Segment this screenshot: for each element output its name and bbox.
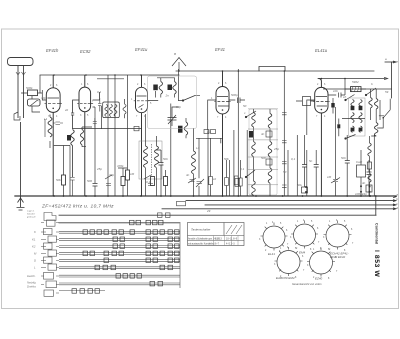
- wire stem to resistor: [21, 87, 43, 112]
- input section components: [21, 58, 200, 197]
- vertical x220.8: [220, 138, 222, 143]
- svg-text:L1: L1: [44, 117, 48, 121]
- trimmer 1M: [331, 178, 340, 184]
- svg-text:K: K: [34, 230, 36, 234]
- svg-text:ZF=452/472 kHz u. 10,7 MHz: ZF=452/472 kHz u. 10,7 MHz: [41, 204, 114, 210]
- cap box on bus2: [177, 201, 186, 205]
- switch S2: [178, 95, 200, 100]
- svg-text:500k: 500k: [26, 86, 33, 90]
- trimmer cap box: [28, 99, 41, 106]
- boxes on bus5: [158, 213, 163, 218]
- core F blobs: [351, 106, 355, 110]
- IF coil A: [159, 82, 162, 95]
- svg-text:EF41: EF41: [215, 47, 225, 52]
- wire x288: [287, 150, 289, 196]
- coil feeds: [146, 114, 157, 196]
- grid wire tube1: [42, 90, 46, 100]
- coupling coil right: [123, 104, 126, 114]
- caps on x284: [282, 113, 287, 188]
- svg-text:1k: 1k: [213, 177, 217, 181]
- svg-text:4n: 4n: [186, 173, 190, 177]
- speaker switch: [383, 99, 390, 118]
- rail drop to resistor: [39, 75, 41, 87]
- top right stub: [385, 61, 394, 63]
- pushbutton switch matrix: [41, 213, 180, 297]
- socket EL41: [261, 223, 288, 251]
- trimmer at x108 bottom: [105, 175, 112, 186]
- svg-text:14p: 14p: [362, 192, 367, 196]
- drop to switch x178.5: [172, 69, 179, 112]
- right edge arrows: [393, 61, 396, 210]
- top rail mid: [176, 70, 374, 72]
- socket EZ40: [307, 248, 335, 277]
- trimmer mid: [144, 175, 153, 186]
- 1JBu cap blob: [337, 124, 340, 128]
- coil L1 under tube1: [48, 117, 52, 137]
- svg-text:500p: 500p: [231, 93, 238, 97]
- 10n cap blob: [331, 103, 334, 108]
- bus line 3: [205, 204, 395, 206]
- cap at x95: [93, 107, 98, 196]
- cap 500p right of tube4: [229, 98, 245, 104]
- wire x108: [107, 75, 109, 196]
- osc coil: [71, 130, 74, 146]
- svg-text:500: 500: [87, 179, 92, 183]
- tube2 aux wiring: [53, 92, 100, 196]
- svg-text:30p: 30p: [109, 173, 114, 177]
- socket ECH42: [324, 221, 352, 250]
- matrix component boxes: [72, 220, 179, 293]
- small cap near tube2: [71, 113, 74, 129]
- svg-text:50p: 50p: [176, 105, 181, 109]
- svg-text:0,1: 0,1: [207, 130, 212, 134]
- resistor on x237: [235, 179, 240, 187]
- svg-text:D: D: [34, 259, 36, 263]
- switch slants left of coils: [246, 170, 255, 177]
- IFT2 coil column A: [252, 113, 256, 127]
- main ground bus: [15, 195, 396, 197]
- coil F: [351, 100, 354, 133]
- IF coil core B (black): [168, 85, 173, 91]
- IF transformer 1 box: [139, 141, 162, 179]
- switch bottom: [346, 135, 356, 139]
- output transformer coils x376: [374, 99, 378, 110]
- switch slant top right: [346, 88, 377, 100]
- resistor 5962 hatched: [351, 87, 362, 92]
- svg-text:Drehko: Drehko: [27, 285, 36, 289]
- svg-text:4n: 4n: [261, 132, 265, 136]
- svg-text:EF42 EF42: EF42 EF42: [330, 255, 346, 259]
- detector mid line: [342, 118, 365, 120]
- matrix row 1: [59, 222, 180, 224]
- tiny value labels: [26, 52, 389, 213]
- wire x115: [114, 75, 116, 196]
- box x240.4: [239, 178, 243, 186]
- svg-text:Heizkr.: Heizkr.: [27, 274, 36, 278]
- svg-text:59: 59: [385, 90, 389, 94]
- resistor x210.5: [209, 177, 213, 185]
- tube socket circles: [261, 221, 352, 277]
- bus line 2: [186, 200, 395, 202]
- Tastenschalter table: [188, 223, 245, 246]
- small boxes between coils: [266, 131, 272, 137]
- tube pin stubs: [45, 101, 330, 104]
- switch slant: [246, 111, 256, 117]
- svg-text:50n: 50n: [341, 156, 346, 160]
- wire x297: [296, 135, 298, 196]
- svg-text:10n: 10n: [333, 89, 338, 93]
- line y128.6: [73, 128, 142, 130]
- svg-text:K2: K2: [32, 245, 36, 249]
- socket EM4: [291, 221, 318, 249]
- IF coil core A (black): [153, 85, 158, 91]
- tube V4 EF41: [216, 71, 229, 196]
- ground: [17, 196, 25, 210]
- svg-text:25p: 25p: [96, 167, 102, 171]
- right section around tube5: [296, 79, 390, 197]
- svg-text:EL41u: EL41u: [315, 48, 328, 53]
- bus line 5: [59, 214, 376, 216]
- IFT2 enclosure box: [249, 109, 277, 195]
- trimmer right: [188, 178, 196, 183]
- svg-text:70p: 70p: [41, 96, 46, 100]
- wire x229.5: [229, 160, 231, 196]
- bandfilter box: [103, 102, 120, 118]
- coil core C: [178, 126, 183, 133]
- core G blobs: [359, 106, 363, 110]
- svg-text:L4: L4: [196, 146, 200, 150]
- trimmer x199: [196, 179, 204, 187]
- tube V3 EF41u: [136, 75, 148, 196]
- cap at 347: [345, 135, 350, 196]
- svg-text:EABC80 EM4: EABC80 EM4: [276, 276, 295, 280]
- box on line: [134, 126, 139, 130]
- svg-text:10–11 8–9: 10–11 8–9: [226, 237, 238, 240]
- resistor x122: [121, 177, 125, 186]
- cluster caps right: [367, 160, 372, 197]
- cap 25u: [93, 118, 97, 128]
- cap at 316: [314, 150, 319, 196]
- button ladder: [41, 213, 59, 297]
- variable cap C14: [168, 112, 177, 126]
- svg-text:5962: 5962: [352, 80, 359, 84]
- choke coil x369.5: [368, 143, 371, 156]
- svg-text:0,1: 0,1: [240, 167, 245, 171]
- antenna: [8, 58, 34, 197]
- svg-text:B: B: [174, 52, 176, 56]
- top rail right: [318, 78, 385, 80]
- svg-text:50: 50: [243, 104, 247, 108]
- CaQ box: [357, 165, 366, 177]
- svg-text:4–5 2–3: 4–5 2–3: [226, 242, 235, 245]
- svg-text:gedruckt: gedruckt: [27, 216, 36, 219]
- output transformer primary x370.5: [369, 98, 372, 109]
- svg-text:K1: K1: [32, 238, 36, 242]
- resistor x226.5: [225, 178, 229, 186]
- svg-text:Continental: Continental: [374, 223, 378, 244]
- cap x160: [156, 150, 164, 196]
- IF coil B: [173, 82, 176, 95]
- svg-text:2n: 2n: [165, 94, 170, 98]
- matrix right edge: [179, 223, 181, 288]
- tube V2 EC92: [79, 75, 93, 196]
- top rail left: [40, 74, 179, 76]
- svg-text:EZ40: EZ40: [315, 277, 323, 281]
- tube pin numbers: [48, 82, 326, 119]
- grid wire tube4: [208, 100, 216, 196]
- socket EABC80: [275, 247, 303, 276]
- coil C: [184, 122, 187, 135]
- grid wire tube5: [307, 100, 315, 196]
- svg-text:0,1: 0,1: [146, 180, 151, 184]
- wire x247: [246, 130, 248, 196]
- svg-text:29: 29: [206, 209, 211, 213]
- resistor x236.3: [235, 176, 239, 185]
- mid-right section (around tube4): [196, 69, 297, 196]
- boxes above: [204, 130, 209, 134]
- svg-text:Tastenschalter: Tastenschalter: [191, 228, 211, 232]
- svg-text:1M: 1M: [327, 175, 332, 179]
- wire x233.9: [233, 130, 235, 196]
- svg-text:50u: 50u: [297, 183, 302, 187]
- top link: [97, 79, 124, 129]
- svg-text:EL41: EL41: [268, 252, 275, 256]
- resistor x152: [151, 177, 155, 186]
- svg-text:470k: 470k: [117, 164, 124, 168]
- AVC line y138: [196, 137, 223, 139]
- matrix row lines (double): [59, 231, 180, 290]
- svg-text:2k: 2k: [64, 108, 69, 112]
- vertical x199: [198, 138, 200, 196]
- tube V5 EL41: [315, 79, 328, 197]
- svg-text:50: 50: [283, 170, 287, 174]
- FM tuner enclosure box: [148, 76, 197, 129]
- svg-text:CaQ: CaQ: [356, 160, 363, 164]
- svg-text:Lage d.: Lage d.: [27, 211, 35, 213]
- svg-text:5n: 5n: [309, 159, 313, 163]
- coil x193: [192, 151, 196, 174]
- coil G: [359, 100, 362, 133]
- resistor x369.5: [367, 162, 371, 169]
- svg-text:0,1: 0,1: [97, 90, 102, 94]
- resistor 500k: [28, 90, 38, 96]
- coil core D (black): [249, 131, 253, 138]
- svg-text:ǀ 853 W: ǀ 853 W: [373, 250, 380, 277]
- horizontals in IFT2: [248, 109, 278, 185]
- svg-text:50k: 50k: [56, 178, 61, 182]
- socket labels: [268, 251, 349, 287]
- svg-text:Schalter: Schalter: [27, 213, 35, 216]
- wire x284 long: [283, 71, 285, 196]
- tube V1 EF41: [46, 75, 60, 196]
- svg-text:1M: 1M: [130, 172, 135, 176]
- ratio detector transformer box: [349, 98, 366, 136]
- svg-text:50k: 50k: [224, 157, 229, 161]
- bus line 4: [162, 208, 395, 210]
- svg-text:6–7: 6–7: [215, 242, 220, 245]
- coil2 x369.5: [368, 174, 371, 183]
- svg-text:50n: 50n: [261, 156, 266, 160]
- osc coil core (black): [67, 135, 71, 141]
- riser at 375.5: [375, 196, 377, 215]
- coupling box left of tube5: [303, 97, 311, 106]
- cap left of bandfilter: [98, 98, 102, 112]
- svg-text:0,1: 0,1: [291, 157, 296, 161]
- resistor on x127: [126, 170, 130, 180]
- cap 0,1 at x70: [70, 178, 74, 197]
- svg-text:25p: 25p: [273, 147, 279, 151]
- coupling coil x82: [80, 130, 83, 145]
- svg-text:Gesamtansicht von unten: Gesamtansicht von unten: [292, 282, 322, 286]
- IFT2 coil column B: [268, 114, 272, 128]
- svg-text:mit austauschb. Kontaktfed.: mit austauschb. Kontaktfed.: [188, 242, 215, 245]
- svg-text:12–13: 12–13: [215, 237, 222, 240]
- svg-text:1h: 1h: [343, 95, 347, 99]
- svg-text:EM4: EM4: [299, 251, 306, 255]
- svg-text:EF41u: EF41u: [135, 47, 148, 52]
- svg-text:EF41h: EF41h: [46, 48, 59, 53]
- wire x238.3 long: [237, 69, 239, 196]
- cap 500p at x57: [53, 122, 63, 125]
- resistor x165: [164, 177, 168, 186]
- vertical x374.3: [373, 135, 375, 196]
- svg-text:50n: 50n: [163, 157, 168, 161]
- right rail: [391, 62, 393, 98]
- svg-text:4n: 4n: [362, 181, 366, 185]
- FM dipole: [172, 58, 186, 67]
- svg-text:EC92: EC92: [80, 49, 91, 54]
- cap at 304: [302, 135, 307, 187]
- matrix row labels: [27, 211, 37, 289]
- socket pin digits: [259, 220, 354, 280]
- resistor 50k vertical: [62, 175, 66, 185]
- elko at 304: [302, 187, 308, 193]
